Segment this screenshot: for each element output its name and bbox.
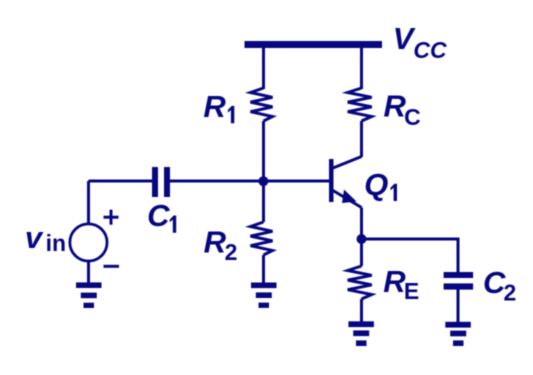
minus sign — [104, 265, 120, 268]
capacitor C1 — [152, 167, 170, 197]
plus sign — [104, 210, 119, 225]
resistor RC — [348, 88, 372, 121]
resistor R1 — [251, 88, 273, 121]
svg-text:R: R — [203, 89, 226, 124]
wire vin to input — [87, 181, 90, 225]
svg-text:in: in — [46, 230, 66, 256]
svg-text:C: C — [147, 198, 170, 233]
label Q1 — [364, 167, 397, 202]
source vin — [70, 224, 107, 261]
svg-text:CC: CC — [413, 37, 447, 63]
wire input to C1 — [89, 180, 153, 183]
svg-text:2: 2 — [504, 280, 517, 306]
label C1 — [147, 198, 176, 233]
wire emitter to node — [360, 208, 363, 240]
svg-text:C: C — [404, 104, 421, 130]
label R1 — [203, 89, 234, 124]
label RE — [383, 264, 419, 304]
resistor R2 — [251, 222, 273, 255]
svg-text:R: R — [383, 264, 406, 299]
transistor Q1 — [329, 157, 362, 208]
label R2 — [204, 224, 238, 265]
label RC — [384, 88, 421, 130]
ground vin — [76, 282, 102, 308]
wire base node to R2 — [262, 181, 265, 222]
svg-text:2: 2 — [225, 239, 238, 265]
ground C2 — [445, 322, 471, 346]
wire emitter node to C2 — [362, 239, 459, 273]
wire node to RE — [360, 239, 363, 266]
wire vin to ground — [87, 261, 90, 284]
svg-text:E: E — [404, 278, 419, 304]
svg-text:R: R — [204, 224, 227, 259]
wire VCC to R1 — [262, 48, 265, 89]
label C2 — [483, 265, 516, 306]
label VCC — [393, 21, 447, 63]
ground RE — [348, 321, 374, 346]
wire RC to collector — [360, 121, 363, 157]
label vin — [25, 220, 66, 256]
capacitor C2 — [444, 272, 474, 290]
svg-text:R: R — [384, 88, 407, 123]
node base junction — [258, 176, 268, 186]
power rail VCC — [245, 41, 383, 48]
svg-text:v: v — [25, 220, 44, 255]
ground R2 — [251, 283, 277, 308]
wire R1 to base node — [262, 121, 265, 181]
svg-text:V: V — [393, 21, 416, 56]
wire C2 to ground — [457, 289, 460, 323]
node emitter junction — [357, 234, 367, 244]
wire VCC to RC — [360, 48, 363, 89]
svg-text:Q: Q — [364, 167, 388, 202]
wire RE to ground — [360, 299, 363, 323]
wire C1 to base — [170, 180, 329, 183]
resistor RE — [348, 266, 372, 299]
wire R2 to ground — [262, 255, 265, 284]
